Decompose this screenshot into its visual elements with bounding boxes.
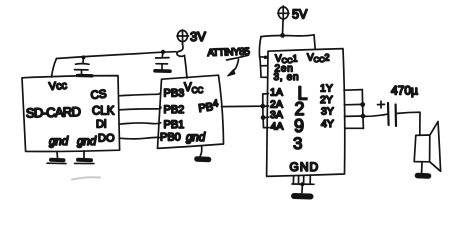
- power supply +5V: [278, 6, 289, 21]
- svg-text:VCC2: VCC2: [307, 53, 330, 65]
- svg-text:1A: 1A: [270, 87, 283, 99]
- svg-text:PB4: PB4: [197, 98, 219, 115]
- capacitor C3: [388, 103, 396, 126]
- svg-text:gnd: gnd: [186, 132, 206, 144]
- ground SD-card 1: [47, 152, 66, 164]
- wire input bus: [263, 94, 269, 128]
- svg-text:GND: GND: [290, 160, 320, 174]
- svg-text:PB1: PB1: [164, 119, 185, 131]
- wire output bus: [344, 90, 363, 129]
- svg-text:VCC: VCC: [184, 82, 203, 95]
- arrow to ATtiny85: [228, 60, 239, 77]
- wire Di to PB1: [119, 123, 161, 124]
- junction output bus 2Y: [360, 102, 365, 107]
- svg-text:4A: 4A: [271, 121, 284, 133]
- svg-text:PB0: PB0: [160, 131, 181, 143]
- svg-text:3V: 3V: [190, 29, 206, 44]
- label ATTINY85: [207, 46, 250, 60]
- wire rail to VCC1 and enables: [259, 37, 267, 78]
- svg-text:1Y: 1Y: [320, 83, 333, 95]
- wire 3V rail: [57, 52, 177, 59]
- junction output bus 3Y: [361, 114, 366, 119]
- ground (speaker): [418, 162, 429, 176]
- label + polarity: [378, 101, 385, 108]
- ground SD-card 2: [75, 151, 95, 164]
- svg-text:DO: DO: [98, 133, 115, 145]
- svg-text:Vcc: Vcc: [48, 80, 68, 93]
- wire DO to PB0: [120, 137, 161, 138]
- label L293 vertical: [293, 84, 308, 154]
- wire 5V down to rail: [282, 21, 285, 36]
- ground (ATtiny): [197, 146, 209, 160]
- wire rail to VCC2: [314, 35, 315, 49]
- junction 5V rail: [280, 33, 285, 38]
- power supply +3V: [177, 30, 189, 56]
- svg-text:2Y: 2Y: [320, 94, 333, 106]
- svg-text:3A: 3A: [270, 109, 283, 121]
- wire CS to PB3: [119, 93, 161, 96]
- wire CLK to PB2: [119, 107, 161, 110]
- svg-text:SD-CARD: SD-CARD: [26, 104, 81, 120]
- junction C2: [161, 50, 165, 54]
- svg-text:PB2: PB2: [164, 104, 185, 116]
- wire PB4 to L293 inputs: [222, 105, 263, 107]
- speaker LS1: [414, 122, 440, 172]
- junction input bus 3A: [261, 115, 266, 120]
- wire 3V to ATtiny VCC: [185, 56, 188, 79]
- svg-text:CS: CS: [90, 88, 107, 102]
- svg-text:CLK: CLK: [92, 106, 115, 118]
- svg-text:3, en: 3, en: [274, 72, 300, 83]
- capacitor C1: [75, 58, 93, 76]
- junction C1: [82, 55, 86, 59]
- wire 5V rail: [261, 35, 314, 37]
- ground (L293): [292, 176, 314, 197]
- junction input bus 2A: [260, 104, 265, 109]
- wire capacitor to speaker: [396, 112, 420, 135]
- IC U1 SD-CARD box: [22, 76, 120, 152]
- svg-text:470µ: 470µ: [391, 84, 418, 98]
- svg-text:9: 9: [294, 116, 304, 136]
- svg-text:3Y: 3Y: [321, 106, 334, 118]
- svg-text:3: 3: [293, 134, 302, 153]
- svg-text:4Y: 4Y: [321, 118, 334, 130]
- svg-text:gnd: gnd: [77, 136, 97, 148]
- svg-text:Di: Di: [96, 119, 106, 131]
- IC U2 ATtiny85 box: [158, 75, 224, 148]
- IC U3 L293 box: [267, 49, 345, 177]
- svg-text:PB3: PB3: [164, 88, 185, 100]
- capacitor C2: [155, 52, 170, 71]
- wire output to capacitor: [363, 114, 387, 116]
- svg-text:gnd: gnd: [49, 136, 69, 148]
- svg-text:5V: 5V: [292, 8, 308, 22]
- wire rail drop to SD-card VCC: [52, 59, 57, 78]
